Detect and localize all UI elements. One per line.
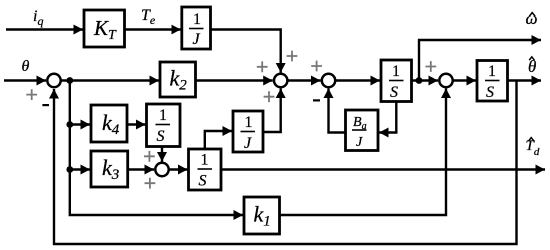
svg-text:J: J [244,135,252,152]
sum C0 [47,74,60,87]
wire C3 to 1/S second [453,79,476,81]
sign plus C3 top-left [425,61,436,72]
svg-text:S: S [157,128,165,145]
svg-text:S: S [199,173,207,190]
block 1/J mid [233,111,263,152]
svg-text:1: 1 [201,152,209,169]
wire Ba/J left and up to C2 bottom [329,89,346,133]
sign plus C0 left [26,89,37,100]
block 1/S topmid [147,104,181,147]
wire Td output long line [221,168,545,170]
sum C2 [322,74,335,87]
sum C4 [155,163,168,176]
sign plus C1 top-right [287,51,298,62]
svg-text:1: 1 [245,114,253,131]
sign minus C2 bottom-left [313,99,320,101]
label omega hat [526,9,538,28]
sign plus C2 top-left [311,61,322,72]
sign minus C0 bottom [42,104,49,106]
sign plus C1 bottom-left [264,91,275,102]
svg-text:J: J [193,31,201,48]
block 1/J top [182,7,211,49]
svg-text:ω: ω [526,9,538,28]
wire C4 to 1/S botmid [169,168,188,170]
svg-text:1: 1 [193,11,201,28]
wire k1 right and up to C3 bottom [280,89,447,216]
label Td hat [526,138,540,158]
wire node A down to k1 row and right to k1 [70,81,243,216]
svg-text:1: 1 [392,63,400,80]
svg-text:1: 1 [488,63,496,80]
node dot at k4 branch [66,121,73,128]
sum C1 [274,74,287,87]
wire theta hat feedback down-left-up to C0 [54,81,517,245]
block k2 [160,62,196,97]
wire 1/J mid right and up to C1 bottom [263,89,281,133]
wire k4 to 1/S topmid [127,123,146,125]
sign plus C4 top-left [144,151,155,162]
wire 1/S first bottom down and left to Ba/J [379,102,396,133]
block 1/S first [381,60,412,102]
node B dot after 1/S first [416,77,423,84]
svg-text:1: 1 [159,107,167,124]
svg-text:S: S [486,84,494,101]
wire theta hat output [508,79,542,81]
wire C0 to k2 [61,79,159,81]
wire iq input arrow [6,28,83,30]
wire 1/S first to sum C3 [412,79,439,81]
block 1/S second [477,61,508,102]
wire 1/J top to sum C1 (right then down) [211,30,281,73]
wire 1/S botmid top up and right to 1/J mid [205,131,232,149]
block k3 [91,151,128,187]
block Ba/J [346,110,379,151]
wire 1/S topmid down to sum C4 [161,147,163,162]
sign plus C1 left [257,61,268,72]
svg-text:S: S [390,84,398,101]
node A dot [66,77,73,84]
block 1/S botmid [189,149,222,190]
block KT [84,10,125,47]
wire node B up and right to omega output [419,40,541,81]
wire KT to 1/J [125,28,181,30]
wire k2 to sum C1 [196,79,273,81]
node dot at k3 branch [66,166,73,173]
block k4 [91,105,127,142]
wire branch to k3 [70,168,90,170]
svg-text:θ: θ [22,58,30,75]
wire C1 to C2 [288,79,321,81]
wire branch to k4 [70,123,90,125]
wire k3 to sum C4 [128,168,154,170]
wire theta input arrow [4,79,46,81]
svg-text:J: J [356,135,363,150]
wire C2 to 1/S first [336,79,381,81]
label theta hat [528,57,536,76]
block k1 [244,197,280,234]
sign plus C4 bottom-left [145,178,156,189]
sum C3 [439,74,452,87]
